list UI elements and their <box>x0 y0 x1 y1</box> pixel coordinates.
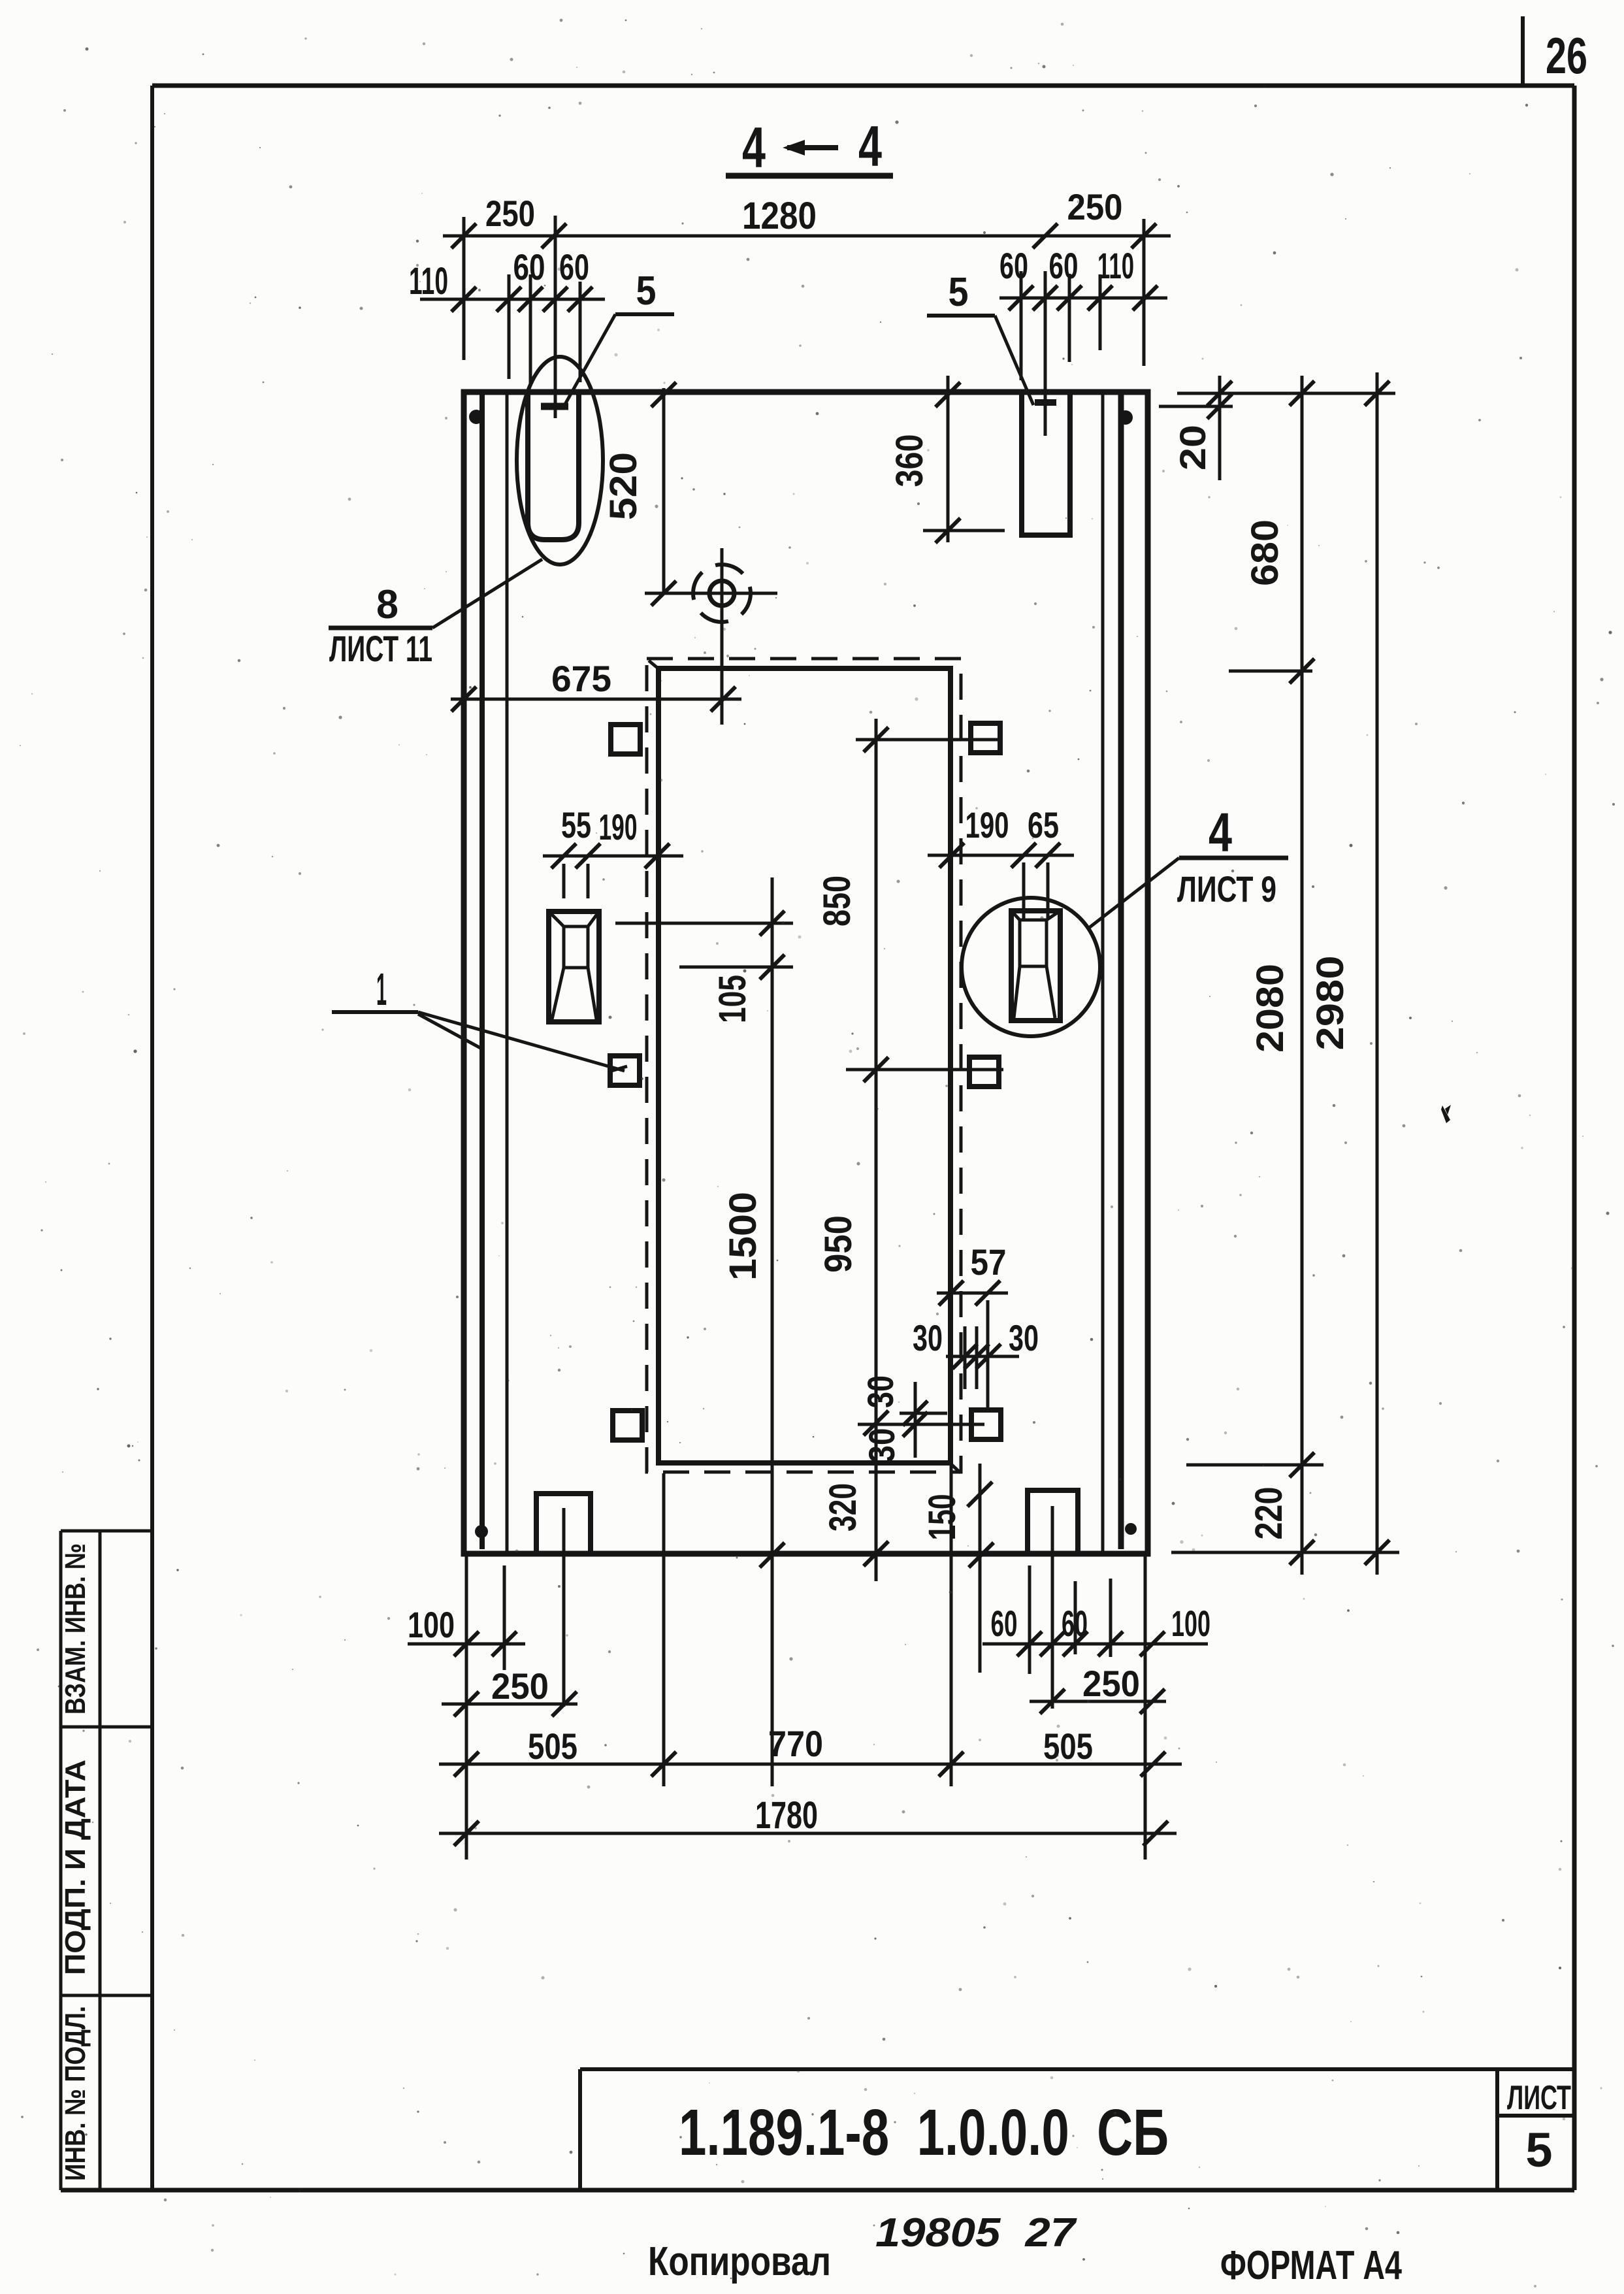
svg-text:60: 60 <box>991 1603 1018 1644</box>
bottom dim line 250 right <box>1030 1663 1166 1714</box>
dimension 105 + 1500 vertical line <box>615 877 793 1786</box>
detail balloon oval around top-left slot <box>517 357 603 565</box>
svg-text:220: 220 <box>1248 1487 1290 1540</box>
svg-text:150: 150 <box>921 1494 964 1541</box>
svg-text:19805 27: 19805 27 <box>875 2210 1077 2255</box>
bottom dim line 60/60/100 right <box>983 1603 1210 1656</box>
svg-text:360: 360 <box>888 434 931 487</box>
page number 26 top right <box>1523 16 1587 87</box>
svg-text:ЛИСТ 9: ЛИСТ 9 <box>1177 868 1276 909</box>
svg-text:57: 57 <box>971 1241 1007 1283</box>
hole horizontal centerline <box>645 592 777 595</box>
svg-text:2980: 2980 <box>1309 956 1352 1051</box>
bottom-right slot <box>1028 1490 1078 1554</box>
svg-text:60: 60 <box>999 245 1028 286</box>
svg-text:1500: 1500 <box>722 1192 764 1281</box>
top dimension line 250/1280/250 <box>443 223 1171 248</box>
weld dot top right <box>1118 410 1133 425</box>
svg-text:675: 675 <box>551 658 611 699</box>
chamfer top-left corner of opening <box>649 661 660 670</box>
svg-text:2080: 2080 <box>1249 964 1291 1053</box>
top extension lines left cluster <box>464 216 580 418</box>
svg-text:100: 100 <box>1171 1603 1210 1644</box>
svg-text:1: 1 <box>376 964 387 1015</box>
weld dot bottom right <box>1125 1523 1137 1535</box>
svg-text:8: 8 <box>376 582 398 627</box>
dimension 360 vertical <box>888 376 1005 543</box>
svg-text:ФОРМАТ А4: ФОРМАТ А4 <box>1220 2243 1402 2288</box>
bottom-left slot <box>536 1494 591 1554</box>
dimension 20 right of panel <box>1159 376 1395 480</box>
top extension lines right cluster <box>1021 219 1144 436</box>
svg-text:30: 30 <box>1009 1317 1039 1358</box>
callout 1 with double leader <box>332 964 627 1071</box>
dashed opening rectangle (far face) <box>647 659 961 1472</box>
svg-text:1280: 1280 <box>742 195 817 237</box>
chamfer bottom-right corner of opening <box>950 1464 960 1473</box>
bottom-left slot centerline <box>562 1508 566 1707</box>
embedded plate square R1 <box>971 723 1000 753</box>
left reinforcement bar line 2 <box>506 393 509 1551</box>
section title 4 — 4 with underline <box>726 114 893 180</box>
svg-text:ЛИСТ 11: ЛИСТ 11 <box>329 628 432 669</box>
svg-text:190: 190 <box>599 806 638 847</box>
svg-text:4: 4 <box>1209 802 1232 863</box>
svg-text:65: 65 <box>1028 804 1059 845</box>
svg-text:55: 55 <box>561 804 591 845</box>
dimension 150 vertical <box>921 1464 994 1673</box>
left reinforcement bar line 1 <box>479 393 485 1549</box>
right reinforcement bar line 2 (thick) <box>1118 393 1124 1549</box>
bottom dim line 505/770/505 <box>439 1723 1182 1777</box>
svg-text:ИНВ. № ПОДЛ.: ИНВ. № ПОДЛ. <box>59 2006 91 2181</box>
dimension 675 horizontal <box>451 658 741 712</box>
svg-text:30: 30 <box>913 1317 943 1358</box>
bottom dim line 1780 <box>439 1794 1177 1846</box>
square row connector line row1 <box>856 738 998 742</box>
square row connector line row3 short <box>900 1412 947 1415</box>
svg-text:5: 5 <box>1525 2123 1552 2177</box>
panel outline rectangle <box>464 392 1148 1554</box>
dimension 57 <box>937 1241 1008 1409</box>
svg-text:850: 850 <box>816 876 858 926</box>
right reinforcement bar line 1 (thin) <box>1101 393 1105 1551</box>
square row connector line row2 <box>846 1068 1003 1072</box>
svg-text:5: 5 <box>949 270 969 315</box>
svg-text:100: 100 <box>408 1604 455 1645</box>
svg-text:505: 505 <box>528 1726 577 1767</box>
bottom dim line 250 left <box>442 1665 577 1716</box>
callout 8 / ЛИСТ 11 <box>329 559 542 669</box>
bottom dim line 100 left <box>408 1604 525 1656</box>
svg-text:30: 30 <box>860 1375 901 1408</box>
stray ink mark right margin <box>1441 1105 1451 1123</box>
svg-text:520: 520 <box>602 452 645 520</box>
svg-text:505: 505 <box>1043 1726 1093 1767</box>
lifting anchor bar left <box>541 403 568 410</box>
embedded plate square L3 <box>613 1411 642 1440</box>
left trapezoid recess <box>549 911 599 1022</box>
svg-text:Копировал: Копировал <box>648 2239 831 2284</box>
svg-text:190: 190 <box>966 804 1009 845</box>
dimension 850/950/320 vertical line <box>816 719 888 1581</box>
svg-text:950: 950 <box>817 1215 860 1273</box>
bottom-right slot centerline <box>1051 1506 1054 1709</box>
lifting anchor bar right <box>1035 399 1056 406</box>
embedded plate square L1 <box>611 725 640 754</box>
svg-text:ВЗАМ. ИНВ. №: ВЗАМ. ИНВ. № <box>59 1543 91 1714</box>
svg-text:110: 110 <box>1097 245 1134 286</box>
svg-text:5: 5 <box>636 269 657 314</box>
svg-text:1780: 1780 <box>755 1794 818 1837</box>
bottom frame segment under stamp column <box>61 2188 152 2193</box>
dimension line 2980 <box>1171 372 1399 1575</box>
svg-text:110: 110 <box>409 260 448 303</box>
title block box <box>580 2069 1574 2190</box>
svg-text:105: 105 <box>711 975 754 1023</box>
svg-text:60: 60 <box>1062 1603 1088 1644</box>
solid opening rectangle (near face) <box>658 668 950 1463</box>
right trapezoid recess <box>1011 911 1060 1021</box>
dimension 55/190 left <box>543 804 683 898</box>
top dimension line 110/60/60 left <box>420 287 605 312</box>
leader label 5 left <box>563 269 674 408</box>
svg-text:20: 20 <box>1172 425 1213 470</box>
leader label 5 right <box>927 270 1033 405</box>
weld dot top left <box>469 410 483 424</box>
top dimension line 60/60/110 right <box>999 286 1167 310</box>
svg-text:680: 680 <box>1244 519 1286 586</box>
svg-text:60: 60 <box>559 246 589 287</box>
dimension 520 vertical <box>602 382 676 606</box>
svg-text:250: 250 <box>1082 1663 1140 1704</box>
svg-text:250: 250 <box>1067 186 1123 227</box>
svg-text:770: 770 <box>768 1723 823 1764</box>
svg-text:4: 4 <box>858 114 882 178</box>
detail balloon circle around right trapezoid <box>962 898 1100 1036</box>
svg-text:26: 26 <box>1546 27 1587 84</box>
weld dot bottom left <box>475 1525 488 1538</box>
embedded plate square L2 <box>610 1056 640 1085</box>
dimension 30/30 rotated pair <box>860 1375 928 1463</box>
embedded plate square R3 <box>971 1410 1001 1439</box>
embedded plate square R2 <box>969 1057 999 1087</box>
square row connector line row3 long <box>858 1423 984 1426</box>
top-right slot <box>1022 392 1070 535</box>
svg-text:30: 30 <box>861 1428 902 1463</box>
svg-text:250: 250 <box>491 1665 549 1707</box>
svg-text:60: 60 <box>1049 245 1079 286</box>
dimension 190/65 right <box>928 804 1074 919</box>
svg-text:ЛИСТ: ЛИСТ <box>1507 2079 1571 2117</box>
callout 4 / ЛИСТ 9 <box>1089 802 1288 928</box>
svg-text:250: 250 <box>485 193 535 234</box>
top-left lifting slot <box>528 392 579 540</box>
left stamp column gridlines <box>61 1531 152 2190</box>
svg-text:320: 320 <box>822 1483 864 1532</box>
hole dashed outer circle <box>693 565 751 622</box>
hole circle <box>709 581 734 606</box>
svg-text:ПОДП. И ДАТА: ПОДП. И ДАТА <box>59 1760 91 1975</box>
svg-text:4: 4 <box>742 115 766 180</box>
svg-text:1.189.1-8 1.0.0.0 СБ: 1.189.1-8 1.0.0.0 СБ <box>679 2096 1169 2169</box>
hole vertical centerline <box>721 548 724 725</box>
bottom extension lines <box>466 1463 1145 1860</box>
dimension 30/30 horizontal pair <box>913 1317 1039 1389</box>
dimension line 680/2080/220 <box>1186 376 1324 1575</box>
